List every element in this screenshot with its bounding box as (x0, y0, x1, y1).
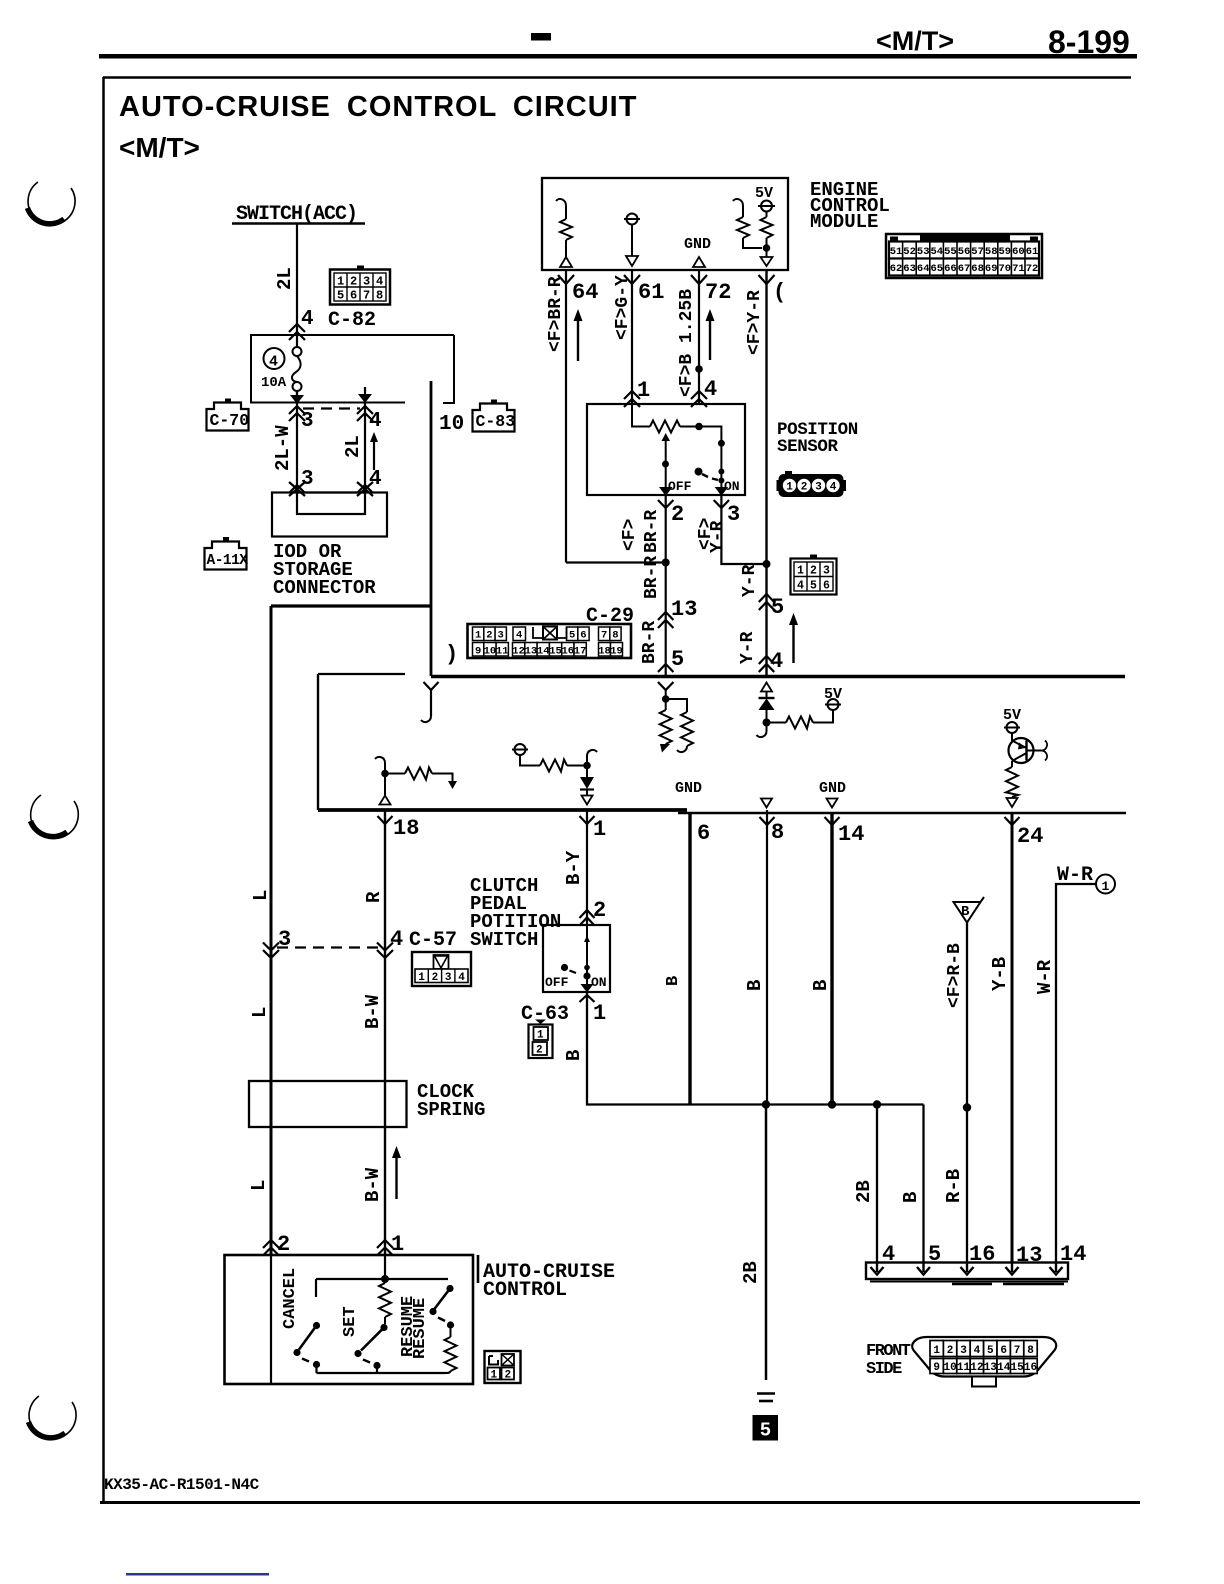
chevron sensor pin2 out (658, 500, 673, 508)
junction block box (251, 335, 454, 403)
svg-text:2: 2 (801, 482, 808, 494)
svg-text:Y-R: Y-R (740, 564, 760, 597)
svg-text:SWITCH: SWITCH (470, 929, 538, 951)
svg-text:8: 8 (1027, 1345, 1034, 1357)
svg-text:5: 5 (760, 1420, 771, 1442)
label POSITION SENSOR (777, 420, 858, 457)
label ON clutch (591, 975, 607, 990)
svg-text:C-63: C-63 (521, 1003, 569, 1026)
connector C-29 (468, 624, 632, 658)
wire B-Y pin1 down (586, 810, 588, 925)
header page number 8-199 (1048, 24, 1130, 60)
label F BR-R pin2 (620, 510, 662, 553)
pin label 4 C-57 (390, 927, 403, 952)
svg-text:<F>R-B: <F>R-B (945, 943, 965, 1008)
svg-text:ON: ON (724, 479, 740, 494)
svg-text:17: 17 (574, 646, 587, 658)
switch RESUME (429, 1285, 456, 1373)
label 2L (274, 267, 296, 290)
wire B clutch down (587, 993, 924, 1105)
wire W-R (1056, 884, 1096, 1263)
svg-text:2: 2 (350, 275, 357, 289)
arrow out of junction block pin3 (290, 391, 304, 404)
connector C-83 (473, 400, 516, 432)
svg-text:2: 2 (947, 1345, 954, 1357)
svg-text:6: 6 (823, 580, 830, 593)
binder hole bottom (29, 1396, 77, 1439)
ECM 5V supply (755, 185, 775, 266)
chevron into IOD right (357, 482, 373, 496)
pin fork 14 (825, 817, 840, 825)
label C-57 (409, 929, 457, 952)
connector C-70 (207, 399, 250, 431)
svg-text:8: 8 (376, 289, 383, 303)
direction arrow Y-R (789, 613, 798, 663)
module bottom rail bold (318, 808, 687, 812)
svg-text:2: 2 (671, 502, 684, 527)
position sensor box (587, 404, 745, 495)
module diode pin1 (512, 744, 597, 805)
engine control module box (542, 178, 788, 270)
svg-text:12: 12 (512, 646, 525, 658)
svg-text:4: 4 (704, 377, 717, 402)
svg-text:L: L (249, 1007, 271, 1018)
svg-text:<F>B 1.25B: <F>B 1.25B (677, 289, 697, 397)
svg-text:7: 7 (1014, 1345, 1021, 1357)
svg-text:56: 56 (958, 246, 971, 258)
svg-text:3: 3 (301, 468, 314, 491)
svg-text:62: 62 (890, 263, 903, 275)
svg-text:1: 1 (797, 565, 804, 578)
svg-text:A-11X: A-11X (207, 553, 249, 569)
direction arrow 72 (706, 309, 715, 360)
sensor junction dot pin4 (695, 423, 703, 431)
label AUTO-CRUISE CONTROL (483, 1261, 615, 1302)
svg-text:71: 71 (1012, 263, 1025, 275)
wire 2B ground down (765, 1105, 768, 1381)
svg-text:2B: 2B (853, 1180, 875, 1203)
module top rail bus (431, 675, 1125, 679)
ECM internal resistor to 5V (733, 199, 762, 248)
label F BR-R (546, 276, 566, 352)
label L upper (250, 890, 272, 901)
svg-text:AUTO-CRUISE CONTROL CIRCUIT: AUTO-CRUISE CONTROL CIRCUIT (119, 91, 637, 123)
svg-text:SET: SET (341, 1306, 360, 1337)
chevron into IOD left (289, 482, 305, 496)
svg-text:C-70: C-70 (210, 411, 250, 430)
sensor wiper arm (659, 433, 673, 496)
chevron bus BR-R (658, 664, 673, 672)
svg-text:GND: GND (819, 780, 846, 797)
wire sensor pin3 down (721, 495, 766, 564)
label SET (341, 1306, 360, 1337)
svg-text:SPRING: SPRING (417, 1099, 485, 1121)
auto-cruise control box (225, 1255, 474, 1384)
pin fork 18 (378, 816, 393, 824)
svg-text:3: 3 (445, 972, 452, 984)
svg-text:FRONT: FRONT (866, 1342, 911, 1361)
label ON sensor (724, 479, 740, 494)
label IOD OR STORAGE CONNECTOR (273, 541, 376, 599)
chevron C-29 pin5 (759, 594, 774, 610)
svg-text:6: 6 (1000, 1345, 1007, 1357)
label F B 1.25B (677, 289, 697, 397)
svg-text:2: 2 (536, 1045, 543, 1057)
svg-text:6: 6 (580, 630, 586, 642)
pin label 72 (705, 280, 731, 305)
header rule (99, 54, 1137, 59)
svg-text:58: 58 (985, 246, 998, 258)
svg-text:4: 4 (369, 468, 382, 491)
svg-text:66: 66 (944, 263, 957, 275)
svg-text:4: 4 (301, 308, 314, 331)
pin label 64 (572, 280, 598, 305)
wire pin10 vertical (430, 381, 433, 676)
footer blue underline (126, 1573, 269, 1576)
svg-text:10: 10 (439, 413, 464, 436)
svg-text:4: 4 (516, 630, 522, 642)
svg-text:): ) (445, 642, 458, 667)
svg-text:1: 1 (475, 630, 481, 642)
svg-text:5: 5 (337, 289, 344, 303)
label pin 4 lower (369, 468, 382, 491)
svg-text:61: 61 (638, 280, 664, 305)
ECM GND (684, 236, 711, 267)
chevron cruise pin1 (377, 1240, 393, 1256)
pin 4 label C-82 (301, 308, 314, 331)
ground reference 5 (753, 1415, 779, 1442)
svg-text:11: 11 (496, 646, 509, 658)
svg-text:14: 14 (537, 646, 550, 658)
svg-text:64: 64 (917, 263, 930, 275)
switch CANCEL (293, 1279, 320, 1373)
svg-text:B: B (900, 1192, 922, 1203)
wire 2L-W (296, 403, 298, 492)
svg-text:70: 70 (998, 263, 1011, 275)
svg-text:SIDE: SIDE (866, 1360, 902, 1379)
svg-text:KX35-AC-R1501-N4C: KX35-AC-R1501-N4C (104, 1476, 260, 1494)
svg-text:B: B (961, 904, 970, 920)
label CLOCK SPRING (417, 1081, 485, 1121)
svg-text:CONNECTOR: CONNECTOR (273, 577, 376, 599)
strip pin label 4 (882, 1242, 895, 1267)
ground bars (757, 1394, 775, 1402)
IOD connector box (272, 493, 387, 537)
svg-text:5: 5 (987, 1345, 994, 1357)
label B-W upper (362, 994, 384, 1029)
chevron below junction block left (289, 406, 305, 421)
sensor ON branch (699, 427, 728, 497)
cruise R wire inside (384, 1256, 386, 1279)
svg-text:B: B (664, 976, 683, 986)
cruise L wire inside (270, 1256, 272, 1383)
cruise bottom rail (317, 1372, 447, 1374)
cruise top rail (316, 1275, 448, 1283)
chevron clutch pin2 (580, 910, 595, 926)
svg-text:2L: 2L (274, 267, 296, 290)
svg-text:52: 52 (903, 246, 916, 258)
label Y-R lower (738, 631, 758, 664)
svg-text:1: 1 (491, 1370, 498, 1382)
svg-text:53: 53 (917, 246, 930, 258)
clutch switch internals (561, 925, 594, 993)
svg-text:2: 2 (432, 972, 439, 984)
svg-text:10: 10 (943, 1362, 956, 1374)
label C-82 (328, 309, 376, 332)
pin label 3 (727, 502, 740, 527)
wire F Y-R ECM (759, 270, 775, 676)
footer rule (100, 1501, 1140, 1504)
svg-text:2: 2 (810, 565, 817, 578)
pin label 18 (393, 816, 419, 841)
svg-text:5: 5 (671, 647, 684, 672)
svg-text:W-R: W-R (1034, 959, 1056, 994)
label F Y-R (745, 290, 765, 355)
dashed connector line C-70 (303, 407, 360, 409)
label B pin8 (744, 980, 766, 991)
label 2B ground (740, 1261, 762, 1284)
switch SET resistor (379, 1283, 391, 1324)
pin label 14 module (838, 822, 864, 847)
svg-text:7: 7 (363, 289, 370, 303)
svg-text:BR-R: BR-R (640, 621, 660, 664)
label R-B lower (943, 1169, 965, 1203)
svg-text:C-82: C-82 (328, 309, 376, 332)
label pin 4 upper (369, 410, 382, 433)
svg-text:2B: 2B (740, 1261, 762, 1284)
svg-text:L: L (250, 890, 272, 901)
chevron below junction block right (357, 406, 373, 421)
svg-text:19: 19 (610, 646, 623, 658)
chevron clutch pin1 (580, 995, 595, 1002)
svg-text:<M/T>: <M/T> (876, 26, 954, 56)
wire 2L lower (364, 403, 366, 492)
label B pin14 (810, 980, 832, 991)
svg-text:1: 1 (637, 378, 650, 403)
label F G-Y (613, 275, 633, 340)
svg-text:Y-R: Y-R (708, 520, 728, 553)
pin label 24 module (1017, 824, 1043, 849)
label pin 3 upper (301, 410, 314, 433)
label 13 strip wire (1034, 959, 1056, 994)
dashed connector line C-57 (277, 946, 379, 948)
module resistor pin18 (375, 757, 457, 805)
svg-text:CONTROL: CONTROL (483, 1279, 567, 1302)
junction dot R-B (963, 1103, 971, 1111)
wire L vertical (270, 606, 273, 1256)
label 2L-W (272, 425, 294, 471)
svg-text:10: 10 (484, 646, 497, 658)
svg-text:1: 1 (391, 1232, 404, 1257)
svg-text:55: 55 (944, 246, 957, 258)
pin fork 1 (580, 816, 595, 824)
svg-text:2: 2 (505, 1370, 512, 1382)
label CLUTCH PEDAL POTITION SWITCH (470, 875, 561, 951)
svg-text:R: R (363, 891, 385, 903)
transistor 5V (1003, 707, 1021, 724)
label 2B pin4 (853, 1180, 875, 1203)
stub connector pin10 (421, 682, 439, 722)
junction dot pin8 ground (762, 1100, 770, 1108)
svg-text:3: 3 (363, 275, 370, 289)
svg-text:GND: GND (675, 780, 702, 797)
svg-text:<F>Y-R: <F>Y-R (745, 290, 765, 355)
label L mid (249, 1007, 271, 1018)
wire Y-B pin24 down (1011, 813, 1014, 1263)
switch SET (354, 1324, 387, 1373)
label C-29 (586, 605, 634, 628)
svg-text:68: 68 (971, 263, 984, 275)
svg-text:<F>: <F> (620, 519, 640, 551)
svg-text:65: 65 (930, 263, 943, 275)
svg-text:7: 7 (601, 630, 607, 642)
label GND right (819, 780, 846, 797)
svg-text:4: 4 (797, 580, 804, 593)
svg-text:15: 15 (549, 646, 562, 658)
wire F G-Y pin 61 (624, 270, 640, 404)
svg-text:2L-W: 2L-W (272, 425, 294, 471)
ECM internal resistor pin 64 (556, 199, 572, 267)
module resistors pin5 (658, 682, 693, 753)
svg-text:4: 4 (390, 927, 403, 952)
svg-text:63: 63 (903, 263, 916, 275)
direction arrow 64 (574, 309, 583, 361)
label 10 (439, 413, 464, 436)
connector 6pin (791, 555, 837, 595)
svg-text:4: 4 (458, 972, 465, 984)
title (119, 91, 637, 123)
connector C-82 (330, 266, 390, 305)
label Y-B (989, 957, 1011, 991)
svg-text:3: 3 (823, 565, 830, 578)
chevron sensor pin3 out (714, 500, 729, 508)
svg-text:2: 2 (593, 898, 606, 923)
sensor switch blade (695, 468, 719, 480)
pin label 6 module (697, 821, 710, 846)
wire B pin14 down (830, 813, 833, 1105)
svg-text:RESUME: RESUME (411, 1298, 430, 1359)
junction dot BR-R (662, 559, 670, 567)
svg-text:3: 3 (960, 1345, 967, 1357)
svg-text:1: 1 (786, 482, 793, 494)
module bottom rail thin (678, 812, 1126, 814)
svg-text:SENSOR: SENSOR (777, 437, 839, 457)
page frame left edge (102, 77, 105, 1501)
joint connector strip (866, 1262, 1068, 1284)
chevron C-57 pin3 (263, 943, 279, 959)
svg-text:59: 59 (998, 246, 1011, 258)
svg-text:16: 16 (1024, 1362, 1037, 1374)
strip pin label 5 (928, 1242, 941, 1267)
svg-text:13: 13 (525, 646, 538, 658)
label OFF sensor (668, 479, 692, 494)
svg-text:OFF: OFF (545, 975, 569, 990)
svg-text:B-W: B-W (362, 1167, 384, 1202)
svg-text:<F>G-Y: <F>G-Y (613, 275, 633, 340)
footer document code (104, 1476, 260, 1494)
wire F B 1.25B pin 72 (691, 270, 707, 404)
label 2L lower (342, 435, 364, 458)
svg-text:B: B (810, 980, 832, 991)
svg-text:1: 1 (537, 1030, 544, 1042)
page frame top edge (103, 76, 1131, 79)
svg-text:3: 3 (498, 630, 504, 642)
svg-text:MODULE: MODULE (810, 211, 878, 233)
svg-text:3: 3 (301, 410, 314, 433)
svg-text:GND: GND (684, 236, 711, 253)
wire F BR-R pin 64 (558, 270, 574, 563)
strip pin label 16 (969, 1242, 995, 1267)
svg-text:C-83: C-83 (476, 412, 516, 431)
svg-text:15: 15 (1010, 1362, 1024, 1374)
pin label 4 Y-R (770, 649, 783, 674)
pin label 1 module (593, 817, 606, 842)
svg-text:2: 2 (486, 630, 492, 642)
gnd triangle pin14 (827, 799, 838, 808)
pin label 1 sensor (637, 378, 650, 403)
svg-text:4: 4 (269, 354, 278, 371)
junction dot pin 72 wire (695, 365, 703, 373)
wire B to pin5 (922, 1105, 924, 1264)
svg-text:10A: 10A (261, 375, 287, 391)
label B clutch (563, 1050, 585, 1061)
circled terminal 1 (1096, 875, 1115, 895)
remote tag B triangle (954, 897, 985, 923)
svg-text:C-57: C-57 (409, 929, 457, 952)
label pin 3 lower (301, 468, 314, 491)
pin label 8 module (771, 820, 784, 845)
svg-text:54: 54 (930, 246, 943, 258)
svg-text:5: 5 (810, 580, 817, 593)
pin label 1 cruise (391, 1232, 404, 1257)
svg-text:6: 6 (697, 821, 710, 846)
direction arrow 2L (370, 432, 378, 470)
connector C-63 (529, 1020, 553, 1059)
svg-text:13: 13 (984, 1362, 998, 1374)
svg-text:14: 14 (838, 822, 864, 847)
cruise switch connector (485, 1351, 521, 1383)
strip pin label 13 (1016, 1243, 1042, 1268)
svg-text:57: 57 (971, 246, 984, 258)
pin fork 24 (1005, 817, 1020, 825)
header M/T tag (876, 26, 954, 56)
svg-text:12: 12 (970, 1362, 983, 1374)
svg-text:BR-R: BR-R (642, 510, 662, 553)
svg-text:13: 13 (1016, 1243, 1042, 1268)
binder hole middle (31, 795, 79, 838)
svg-text:4: 4 (974, 1345, 981, 1357)
wire 64 horizontal to junction (566, 561, 666, 563)
binder hole top (28, 182, 76, 225)
wire R pin18 down (384, 810, 386, 1256)
fuse 4 10A (261, 335, 302, 402)
svg-text:3: 3 (727, 502, 740, 527)
pin label right paren (773, 280, 786, 305)
svg-text:<M/T>: <M/T> (119, 132, 200, 163)
svg-text:1: 1 (418, 972, 425, 984)
junction dot Y-R (763, 560, 771, 568)
position sensor potentiometer (632, 404, 699, 433)
svg-text:5: 5 (771, 595, 784, 620)
svg-text:B: B (563, 1050, 585, 1061)
label F R-B (945, 943, 965, 1008)
label RESUME (399, 1296, 430, 1359)
svg-text:1: 1 (933, 1345, 940, 1357)
wire B pin6 down (688, 813, 691, 1104)
ECM connector table (886, 234, 1042, 278)
svg-text:64: 64 (572, 280, 598, 305)
svg-text:18: 18 (393, 816, 419, 841)
